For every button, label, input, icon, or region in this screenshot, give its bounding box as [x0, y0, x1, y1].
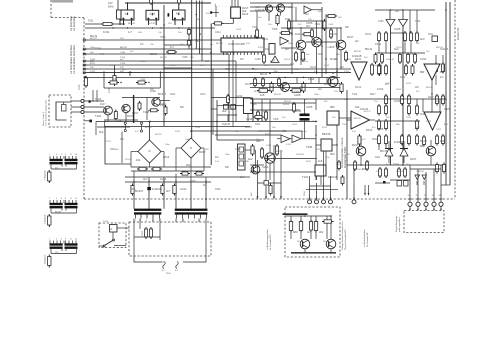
- svg-text:zu Dekoderplatine: zu Dekoderplatine: [363, 229, 366, 247]
- svg-text:R112: R112: [322, 127, 328, 129]
- svg-text:6: 6: [61, 239, 62, 241]
- svg-text:1N4148: 1N4148: [386, 59, 394, 61]
- svg-text:zur Netzplatine: zur Netzplatine: [70, 44, 73, 60]
- svg-text:680: 680: [293, 230, 298, 234]
- svg-text:R217: R217: [127, 114, 134, 118]
- svg-text:R112: R112: [262, 121, 268, 123]
- svg-text:C105: C105: [140, 79, 146, 81]
- svg-text:T104: T104: [195, 41, 201, 43]
- svg-text:C214: C214: [112, 79, 118, 81]
- svg-text:T208: T208: [272, 29, 278, 31]
- svg-text:10: 10: [408, 195, 410, 197]
- svg-text:C105: C105: [190, 181, 196, 183]
- svg-text:100n: 100n: [302, 131, 308, 133]
- svg-text:D112: D112: [326, 47, 332, 49]
- svg-text:8: 8: [65, 239, 66, 241]
- svg-text:8: 8: [65, 198, 66, 200]
- svg-text:R217: R217: [100, 104, 106, 106]
- svg-text:6: 6: [61, 198, 62, 200]
- svg-text:!: !: [274, 59, 275, 63]
- svg-text:4n7: 4n7: [285, 47, 290, 51]
- svg-text:BD139: BD139: [380, 151, 388, 153]
- svg-text:BD139: BD139: [274, 94, 281, 96]
- svg-text:IC101: IC101: [284, 59, 291, 61]
- svg-text:230V: 230V: [166, 273, 171, 275]
- svg-text:T104: T104: [294, 91, 300, 93]
- svg-text:T208: T208: [235, 149, 241, 151]
- svg-text:IC101: IC101: [262, 39, 269, 41]
- svg-text:IC101: IC101: [396, 47, 403, 49]
- svg-text:BD139: BD139: [284, 101, 291, 103]
- svg-text:R112: R112: [175, 131, 181, 133]
- svg-text:R217: R217: [306, 161, 312, 163]
- svg-text:C214: C214: [95, 48, 101, 50]
- svg-text:C214: C214: [200, 94, 206, 96]
- svg-text:R112: R112: [406, 83, 412, 85]
- svg-text:BC237: BC237: [145, 127, 152, 129]
- svg-text:R217: R217: [428, 97, 434, 99]
- svg-text:IC101: IC101: [375, 44, 382, 46]
- svg-text:3k3: 3k3: [330, 152, 335, 156]
- svg-text:1N4148: 1N4148: [296, 154, 304, 156]
- svg-text:BD139: BD139: [260, 74, 268, 76]
- svg-text:Chassis Kontakt 9/15: Chassis Kontakt 9/15: [344, 229, 347, 250]
- svg-text:1k5: 1k5: [318, 159, 323, 163]
- svg-text:C214: C214: [195, 127, 201, 129]
- svg-text:BC237: BC237: [288, 7, 295, 9]
- svg-text:Verdrahtungsplatine / Chassis: Verdrahtungsplatine / Chassis: [341, 137, 344, 168]
- svg-text:D112: D112: [236, 29, 242, 31]
- svg-text:BC237: BC237: [90, 38, 97, 40]
- svg-text:1: 1: [49, 239, 50, 241]
- svg-text:D112: D112: [406, 117, 412, 119]
- svg-text:1N4148: 1N4148: [416, 171, 424, 173]
- svg-text:IC101: IC101: [245, 84, 252, 86]
- svg-text:C214: C214: [394, 99, 401, 103]
- svg-text:6: 6: [61, 154, 62, 156]
- svg-text:BD139: BD139: [365, 49, 373, 51]
- svg-text:1N4148: 1N4148: [222, 124, 231, 126]
- svg-text:2k2: 2k2: [222, 109, 227, 113]
- svg-text:D112: D112: [90, 71, 96, 73]
- svg-text:7: 7: [194, 220, 195, 222]
- svg-text:T208: T208: [143, 110, 150, 114]
- svg-text:BD139: BD139: [55, 212, 62, 214]
- svg-text:1: 1: [49, 198, 50, 200]
- svg-text:C105: C105: [255, 59, 261, 61]
- svg-text:BC237: BC237: [155, 134, 162, 136]
- svg-text:T104: T104: [103, 221, 109, 223]
- svg-text:T104: T104: [415, 21, 421, 23]
- svg-text:13: 13: [432, 195, 434, 197]
- svg-text:IC101: IC101: [103, 31, 110, 34]
- svg-text:1N4148: 1N4148: [328, 175, 338, 179]
- svg-text:4n7: 4n7: [143, 177, 148, 181]
- svg-text:100n: 100n: [440, 139, 446, 143]
- svg-text:IC101: IC101: [355, 59, 362, 61]
- svg-text:BC237: BC237: [245, 127, 253, 129]
- svg-text:4n7: 4n7: [166, 189, 171, 193]
- svg-text:100n: 100n: [288, 43, 294, 45]
- svg-text:1N4148: 1N4148: [255, 8, 265, 12]
- svg-text:R217: R217: [352, 143, 359, 147]
- svg-text:D112: D112: [286, 144, 292, 146]
- svg-text:220: 220: [282, 129, 287, 133]
- svg-text:T104: T104: [95, 97, 102, 101]
- svg-text:3u3: 3u3: [248, 157, 253, 161]
- svg-text:D112: D112: [170, 94, 176, 96]
- svg-text:1N4148: 1N4148: [352, 54, 362, 58]
- svg-text:1k5: 1k5: [260, 93, 265, 97]
- svg-text:2k2: 2k2: [319, 230, 324, 234]
- svg-text:2k2: 2k2: [324, 82, 329, 86]
- svg-text:24V: 24V: [108, 1, 113, 5]
- svg-text:Voltage Netzteil Lautsprecher: Voltage Netzteil Lautsprecher: [341, 221, 344, 250]
- svg-text:IC101: IC101: [310, 67, 317, 69]
- svg-text:R112: R112: [396, 89, 402, 91]
- svg-text:100n: 100n: [185, 139, 191, 141]
- svg-text:T104: T104: [352, 94, 358, 96]
- svg-text:T208: T208: [160, 37, 166, 39]
- svg-text:100n: 100n: [400, 77, 406, 79]
- svg-text:100n: 100n: [428, 34, 434, 36]
- svg-text:100n: 100n: [294, 69, 300, 71]
- svg-text:D112: D112: [324, 65, 330, 67]
- svg-text:C214: C214: [262, 165, 269, 169]
- svg-text:BC237: BC237: [158, 92, 167, 96]
- svg-text:R217: R217: [296, 49, 302, 51]
- svg-text:IC101: IC101: [300, 87, 307, 89]
- svg-text:BD139: BD139: [322, 132, 331, 136]
- svg-text:C214: C214: [377, 87, 384, 91]
- svg-text:14: 14: [75, 239, 77, 241]
- svg-text:Netzteil 24V: Netzteil 24V: [457, 27, 460, 40]
- svg-text:C105: C105: [294, 93, 301, 97]
- svg-text:P101: P101: [142, 230, 144, 236]
- svg-text:T208: T208: [306, 145, 313, 149]
- svg-text:T104: T104: [252, 27, 258, 29]
- svg-text:BD139: BD139: [148, 23, 155, 25]
- svg-text:1N4148: 1N4148: [406, 54, 414, 56]
- svg-text:BD139: BD139: [354, 51, 361, 53]
- svg-text:St. Kontakt 8/16: St. Kontakt 8/16: [269, 234, 272, 250]
- svg-text:IC102 MC1458: IC102 MC1458: [228, 43, 245, 46]
- svg-text:100n: 100n: [255, 124, 261, 126]
- svg-text:zur Netzplatine: zur Netzplatine: [73, 15, 76, 31]
- svg-text:14: 14: [75, 198, 77, 200]
- svg-text:BD139: BD139: [354, 118, 361, 120]
- svg-text:1N4148: 1N4148: [152, 187, 162, 191]
- svg-text:zur Netzplatine: zur Netzplatine: [70, 58, 73, 74]
- svg-text:IC101: IC101: [140, 61, 147, 63]
- svg-text:1N4148: 1N4148: [396, 171, 404, 173]
- svg-text:R217: R217: [347, 35, 354, 39]
- svg-text:1N4148: 1N4148: [356, 169, 364, 171]
- svg-text:C214: C214: [308, 77, 315, 81]
- svg-text:D112: D112: [263, 111, 269, 113]
- svg-text:print regulation: print regulation: [398, 217, 401, 232]
- svg-text:IC101: IC101: [355, 87, 362, 89]
- svg-text:C214: C214: [180, 187, 187, 191]
- svg-text:4: 4: [56, 198, 57, 200]
- svg-text:4n7: 4n7: [306, 24, 311, 28]
- svg-text:4: 4: [56, 154, 57, 156]
- svg-text:100n: 100n: [375, 157, 381, 159]
- svg-text:T208: T208: [273, 119, 279, 121]
- svg-text:C105: C105: [378, 21, 384, 23]
- svg-text:R217: R217: [312, 121, 318, 123]
- svg-text:R217: R217: [316, 149, 322, 151]
- svg-text:C214: C214: [120, 63, 126, 65]
- svg-text:IC101: IC101: [125, 159, 132, 161]
- svg-text:C214: C214: [236, 94, 243, 98]
- svg-text:100n: 100n: [225, 154, 231, 156]
- svg-text:IC101: IC101: [283, 104, 290, 106]
- svg-text:100n: 100n: [165, 144, 171, 146]
- svg-text:BC237: BC237: [364, 111, 371, 113]
- svg-text:BD139: BD139: [270, 87, 278, 89]
- svg-text:10k: 10k: [136, 158, 141, 162]
- svg-text:T104: T104: [302, 175, 309, 179]
- svg-text:Stereo Taste 5: Stereo Taste 5: [42, 111, 45, 126]
- svg-text:11: 11: [70, 198, 72, 200]
- svg-text:T104: T104: [342, 124, 348, 126]
- svg-text:R217: R217: [370, 94, 376, 96]
- svg-text:R112: R112: [206, 13, 212, 15]
- svg-text:zu Bedienungsplatine: zu Bedienungsplatine: [266, 228, 269, 250]
- svg-text:D112: D112: [292, 124, 298, 126]
- svg-text:T104: T104: [304, 190, 306, 196]
- svg-text:C214: C214: [393, 164, 399, 166]
- svg-text:1N4148: 1N4148: [394, 140, 404, 144]
- svg-text:14: 14: [75, 154, 77, 156]
- svg-text:T208: T208: [130, 189, 136, 191]
- svg-text:12: 12: [424, 195, 426, 197]
- svg-text:100n: 100n: [314, 94, 320, 96]
- svg-text:C105: C105: [306, 105, 313, 109]
- svg-text:BD139: BD139: [90, 36, 98, 38]
- svg-text:C113: C113: [79, 84, 81, 90]
- svg-text:C214: C214: [420, 57, 427, 61]
- svg-text:St. Kontakt 3/8: St. Kontakt 3/8: [366, 232, 369, 247]
- svg-text:T208: T208: [215, 189, 221, 191]
- svg-text:R112: R112: [295, 34, 301, 36]
- svg-text:IC101: IC101: [365, 34, 372, 36]
- svg-text:BC237: BC237: [420, 141, 428, 143]
- svg-text:11: 11: [70, 154, 72, 156]
- svg-text:zur Netzplatine: zur Netzplatine: [73, 58, 76, 74]
- svg-text:R: R: [111, 227, 113, 231]
- svg-text:100n: 100n: [230, 109, 236, 111]
- svg-text:BD139: BD139: [216, 43, 223, 45]
- svg-text:C214: C214: [215, 32, 221, 34]
- svg-text:BC237: BC237: [170, 65, 177, 67]
- svg-text:2k2: 2k2: [186, 163, 191, 167]
- svg-text:C214: C214: [160, 177, 167, 181]
- svg-text:R217: R217: [410, 157, 417, 161]
- svg-text:C214: C214: [246, 117, 253, 121]
- svg-text:8: 8: [65, 154, 66, 156]
- svg-text:BD139: BD139: [160, 57, 167, 59]
- svg-text:BC237: BC237: [276, 151, 283, 153]
- svg-text:D112: D112: [242, 12, 249, 16]
- svg-text:11: 11: [416, 195, 418, 197]
- svg-text:3u3: 3u3: [420, 37, 425, 41]
- svg-text:R112: R112: [346, 59, 352, 61]
- svg-text:4n7: 4n7: [307, 230, 312, 234]
- svg-text:1: 1: [49, 154, 50, 156]
- svg-text:50Hz: 50Hz: [108, 5, 114, 8]
- svg-text:zur Netzplatine: zur Netzplatine: [70, 15, 73, 31]
- svg-text:D112: D112: [315, 24, 321, 26]
- svg-text:Netzteilplatine 5WK9: Netzteilplatine 5WK9: [344, 146, 347, 168]
- svg-text:D112: D112: [344, 71, 350, 73]
- svg-text:T-Abgleich: T-Abgleich: [44, 169, 47, 180]
- svg-text:1k5: 1k5: [318, 52, 323, 56]
- svg-text:D112: D112: [285, 19, 291, 21]
- svg-text:D112: D112: [426, 121, 432, 123]
- svg-text:R217: R217: [160, 104, 166, 106]
- svg-text:T208: T208: [225, 69, 231, 71]
- svg-text:R112: R112: [372, 139, 378, 141]
- svg-text:T208: T208: [120, 57, 126, 59]
- svg-text:zur Netzplatine: zur Netzplatine: [73, 44, 76, 60]
- svg-text:BD139: BD139: [120, 47, 127, 49]
- svg-text:3: 3: [159, 220, 160, 222]
- svg-text:T-Abgleich: T-Abgleich: [44, 213, 47, 224]
- svg-text:IC101: IC101: [105, 141, 112, 143]
- svg-text:4: 4: [56, 239, 57, 241]
- svg-text:T-Abgleich: T-Abgleich: [44, 254, 47, 265]
- svg-text:D112: D112: [163, 155, 170, 159]
- svg-text:BD139: BD139: [128, 23, 135, 25]
- svg-text:T104: T104: [95, 114, 102, 118]
- svg-text:C214: C214: [268, 54, 274, 56]
- svg-text:1N4148: 1N4148: [293, 111, 302, 113]
- svg-text:680: 680: [330, 105, 335, 109]
- svg-text:C105: C105: [120, 52, 126, 54]
- svg-text:BC237: BC237: [330, 34, 338, 36]
- svg-text:1k5: 1k5: [117, 119, 122, 123]
- svg-text:BD139: BD139: [426, 87, 433, 89]
- svg-text:C105: C105: [394, 27, 401, 31]
- svg-text:1N4148: 1N4148: [440, 49, 449, 51]
- svg-text:BC237: BC237: [135, 189, 144, 193]
- svg-text:BD139: BD139: [436, 47, 443, 49]
- svg-text:D112: D112: [436, 129, 442, 131]
- svg-text:R217: R217: [90, 63, 96, 65]
- svg-text:22n: 22n: [55, 168, 58, 170]
- svg-text:11: 11: [70, 239, 72, 241]
- svg-text:D112: D112: [266, 145, 272, 147]
- svg-text:D112: D112: [386, 83, 392, 85]
- svg-text:C105: C105: [444, 107, 451, 111]
- svg-text:14: 14: [439, 195, 441, 197]
- svg-text:F101: F101: [88, 20, 94, 23]
- svg-text:C105: C105: [150, 14, 156, 16]
- svg-text:C105: C105: [377, 127, 384, 131]
- svg-text:C105: C105: [328, 24, 334, 26]
- svg-text:C105: C105: [182, 57, 188, 59]
- svg-text:BD139: BD139: [150, 54, 158, 56]
- svg-text:2k2: 2k2: [99, 130, 104, 134]
- svg-text:Mogel Ausgange: Mogel Ausgange: [395, 215, 398, 232]
- svg-text:R112: R112: [258, 47, 264, 49]
- svg-text:BD139: BD139: [254, 91, 261, 93]
